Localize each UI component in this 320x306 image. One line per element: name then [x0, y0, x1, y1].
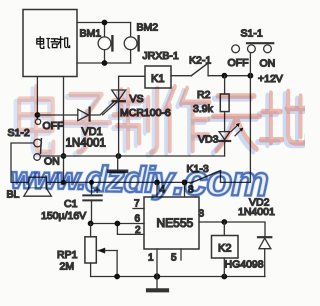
speaker BL: [24, 177, 52, 196]
diode VD2 1N4001: [258, 237, 271, 276]
node junction SCR cathode at y156: [116, 153, 122, 159]
wire K2 top lead: [223, 222, 225, 236]
node junction +12V: [248, 73, 254, 79]
svg-text:2: 2: [135, 225, 141, 236]
node junction ground/pin1: [154, 273, 160, 279]
svg-text:NE555: NE555: [157, 216, 194, 230]
telephone label 电话机 (drawn strokes): [37, 37, 70, 49]
wire pin 6: [91, 223, 144, 225]
node junction C1/RP1: [88, 221, 94, 227]
wire to VD1 anode: [37, 114, 77, 116]
svg-text:1: 1: [148, 253, 154, 264]
svg-text:S1-1: S1-1: [241, 28, 263, 40]
switch S1-1: [232, 43, 274, 75]
relay coil K1: [145, 66, 171, 88]
microphone BM1: [98, 36, 112, 50]
wire K1 to K2-1 switch: [171, 75, 191, 77]
switch S1-2: [34, 119, 42, 160]
wire BM2 top lead: [130, 23, 132, 37]
wire K2 bottom lead: [223, 258, 225, 277]
wire BM2 bottom lead: [130, 50, 132, 63]
watermark red 电子制作天地: [16, 87, 310, 155]
wire VD1 cathode to SCR gate: [91, 102, 114, 115]
svg-text:OFF: OFF: [228, 57, 249, 69]
node junction pin6/2: [115, 221, 121, 227]
wire S1-2 pole loop to speaker: [11, 143, 34, 182]
node junction bottom at BM1: [102, 60, 108, 66]
ground bar below SCR cathode node: [109, 156, 127, 171]
switch K2-1: [191, 63, 208, 76]
svg-text:C1: C1: [64, 198, 78, 210]
relay coil K2: [212, 236, 239, 259]
switch K1-3: [190, 171, 220, 184]
wire BM1 top lead: [104, 23, 106, 37]
wire mid rail y182.4: [64, 181, 191, 183]
potentiometer RP1: [85, 224, 117, 277]
IC NE555: [144, 197, 199, 249]
LED VD3: [219, 123, 243, 156]
capacitor C1: [83, 182, 101, 223]
svg-text:150µ/16V: 150µ/16V: [41, 210, 86, 222]
svg-text:+12V: +12V: [258, 73, 283, 85]
node junction top at BM1: [102, 20, 108, 26]
svg-text:7: 7: [134, 199, 140, 210]
svg-text:K1: K1: [151, 73, 164, 85]
svg-text:3: 3: [199, 209, 205, 220]
wire bottom mic bus: [77, 62, 131, 64]
ground: [148, 277, 167, 291]
wire K2-1 to supply node: [208, 75, 250, 77]
node junction C1 top: [89, 180, 94, 185]
node junction at x63.5 y156: [61, 153, 67, 159]
wire SCR anode to K1: [119, 75, 145, 77]
电: [37, 37, 44, 49]
node junction pin4: [154, 180, 160, 186]
node junction pin3/K2: [221, 219, 227, 225]
wire pin 7 stub: [133, 208, 144, 210]
svg-text:6: 6: [135, 214, 141, 225]
microphone BM2: [124, 36, 138, 50]
wire BM1 bottom lead: [104, 50, 106, 63]
svg-text:R2: R2: [197, 89, 211, 101]
svg-text:ON: ON: [260, 58, 276, 70]
thyristor VS MCR100-6: [103, 76, 126, 156]
svg-text:K2-1: K2-1: [189, 55, 211, 67]
wire phone bottom-right drop: [63, 77, 65, 182]
node junction RP1 wiper: [114, 274, 120, 280]
wire pin 4 lead: [156, 182, 158, 197]
svg-text:BM2: BM2: [137, 22, 159, 34]
wire +12V rail down to K1-3: [221, 76, 251, 183]
wire top mic bus: [77, 22, 131, 24]
resistor R2: [220, 76, 229, 132]
node junction speaker/drop: [61, 180, 66, 185]
svg-text:RP1: RP1: [57, 249, 78, 261]
机: [58, 37, 69, 48]
node junction pin8: [182, 180, 188, 186]
svg-text:2M: 2M: [60, 261, 75, 273]
watermark blue www.dzdiy.com: [11, 154, 269, 205]
wire pin 5 stub: [180, 249, 182, 260]
wire speaker right to main drop: [46, 181, 63, 183]
wire pin 1 lead: [156, 249, 158, 277]
node junction S1-2 / VD1 wire: [35, 112, 41, 118]
telephone box 电话机: [23, 10, 77, 77]
话: [47, 39, 58, 49]
diode VD1 1N4001: [78, 108, 90, 121]
node junction K2 bottom: [221, 274, 227, 280]
wire pin 2: [117, 224, 144, 235]
wire pin 8 lead: [184, 182, 186, 197]
wire row y156: S1-2 ON to VD3 cathode: [40, 155, 224, 157]
svg-text:BM1: BM1: [80, 28, 102, 40]
svg-text:HG4098: HG4098: [225, 259, 264, 271]
svg-text:5: 5: [171, 253, 177, 264]
svg-text:JRXB-1: JRXB-1: [143, 50, 179, 62]
svg-text:K2: K2: [218, 243, 231, 255]
svg-text:1N4001: 1N4001: [238, 206, 275, 218]
node junction R2 top: [222, 73, 228, 79]
wire pin 3: [199, 222, 265, 237]
wire bottom rail: [91, 276, 265, 278]
svg-text:www.dzdiy.com: www.dzdiy.com: [11, 154, 269, 205]
wire phone bottom-left drop to S1-2: [36, 77, 38, 119]
